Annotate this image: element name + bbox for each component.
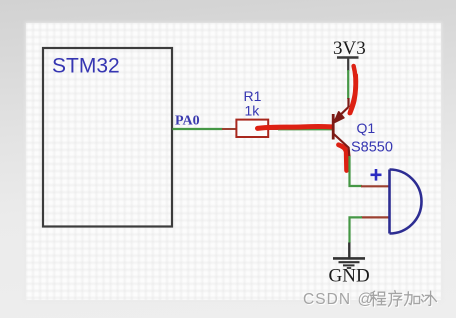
watermark CSDN @程序加冰 [303,288,455,314]
svg-text:Q1: Q1 [357,120,376,136]
svg-text:1k: 1k [245,103,261,119]
wire buzzer to GND [350,217,363,243]
svg-text:S8550: S8550 [351,140,393,156]
pin PA0 label [175,114,200,129]
resistor R1 1k [222,88,279,137]
wire 3V3 to Q1 emitter [347,70,349,99]
MCU U1 STM32 box [43,48,172,227]
wire PA0 to R1 [173,128,223,130]
wire R1 to Q1 base [278,128,334,130]
transistor Q1 S8550 PNP [333,98,393,157]
svg-text:GND: GND [329,266,370,287]
svg-text:3V3: 3V3 [333,38,366,59]
svg-text:STM32: STM32 [52,55,120,78]
power 3V3 [333,38,366,71]
svg-text:PA0: PA0 [175,114,200,129]
annotation red current path 3V3 to emitter [350,66,357,113]
ground GND [329,243,370,287]
buzzer LS1 [361,169,422,234]
annotation red current path R1 to base [258,127,332,129]
wire Q1 collector to buzzer plus [350,156,363,186]
annotation red current path collector down [339,145,347,171]
